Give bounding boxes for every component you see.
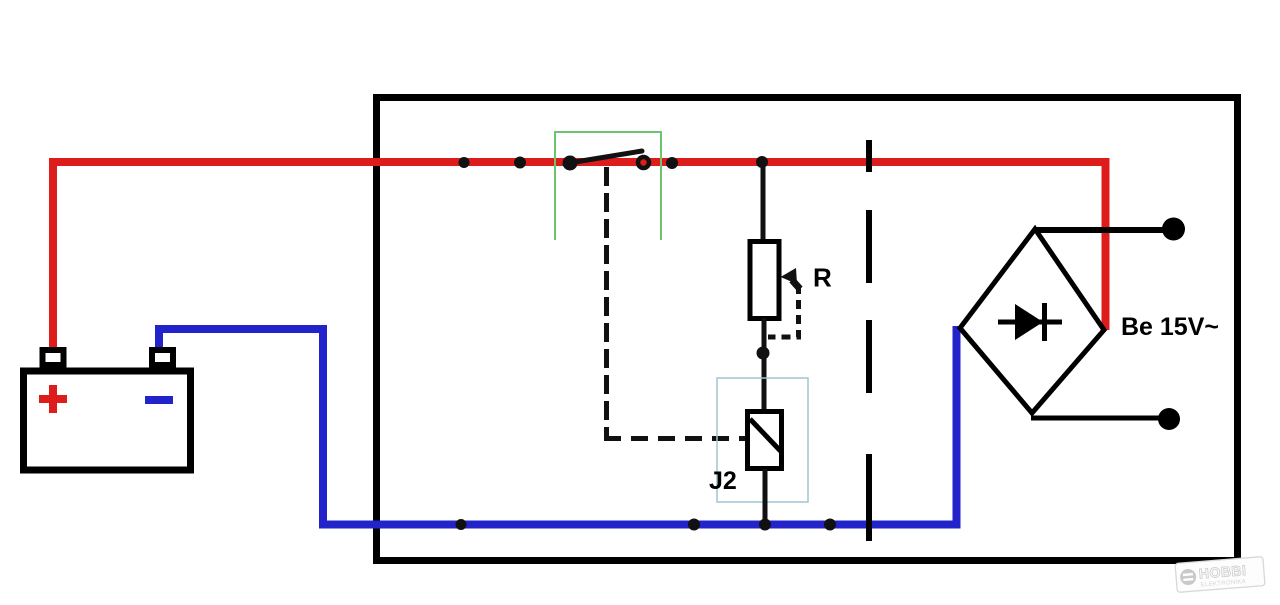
dash-dot separator line <box>866 140 872 541</box>
node on blue bus <box>456 519 467 530</box>
dashed actuator link vertical from switch <box>604 167 609 440</box>
wire below resistor to relay coil <box>762 318 767 410</box>
bridge rectifier diamond <box>960 229 1104 413</box>
svg-text:J2: J2 <box>709 467 737 495</box>
svg-text:R: R <box>813 263 832 293</box>
switch highlight box (green) <box>555 132 661 240</box>
AC terminal bottom <box>1158 408 1180 430</box>
potentiometer wiper arrow <box>792 280 800 289</box>
AC output wire bottom <box>1031 416 1160 421</box>
node below resistor <box>757 347 770 360</box>
wire from red bus down to resistor R <box>761 162 766 240</box>
node on blue bus <box>824 519 836 531</box>
diode cathode bar <box>1042 303 1047 341</box>
watermark logo HOBBI ELEKTRONIKA <box>1175 557 1265 593</box>
relay coil diagonal <box>750 419 781 451</box>
battery negative terminal post <box>152 350 173 365</box>
switch left contact <box>563 156 578 171</box>
node: relay connection on blue bus <box>759 519 771 531</box>
enclosure box outline <box>377 98 1238 561</box>
AC terminal top <box>1162 218 1185 241</box>
node on top wire <box>514 157 526 169</box>
relay coil J2 body <box>748 412 782 469</box>
switch arm <box>569 151 642 163</box>
dashed wiper connection <box>768 285 799 337</box>
svg-text:Be 15V~: Be 15V~ <box>1121 313 1219 341</box>
battery positive terminal post <box>43 350 64 365</box>
node: resistor tap on red wire <box>756 156 768 168</box>
AC output wire top <box>1035 227 1165 233</box>
wire: blue negative from battery to bridge left vertex <box>159 326 957 525</box>
relay highlight box (light blue) <box>717 378 808 502</box>
battery minus symbol <box>145 396 173 404</box>
wire: red positive from battery to bridge right vertex <box>53 162 1106 351</box>
node after switch <box>666 157 678 169</box>
wire from relay coil to blue bus <box>763 469 768 523</box>
resistor R body <box>750 242 779 319</box>
battery body <box>24 371 191 470</box>
dashed actuator link horizontal to relay coil <box>604 436 745 441</box>
node on blue bus <box>688 519 700 531</box>
switch right contact ring <box>638 157 649 168</box>
node on top wire <box>459 157 470 168</box>
diode triangle <box>1015 304 1043 340</box>
battery plus symbol <box>39 385 67 413</box>
diode symbol lead line <box>998 320 1062 325</box>
